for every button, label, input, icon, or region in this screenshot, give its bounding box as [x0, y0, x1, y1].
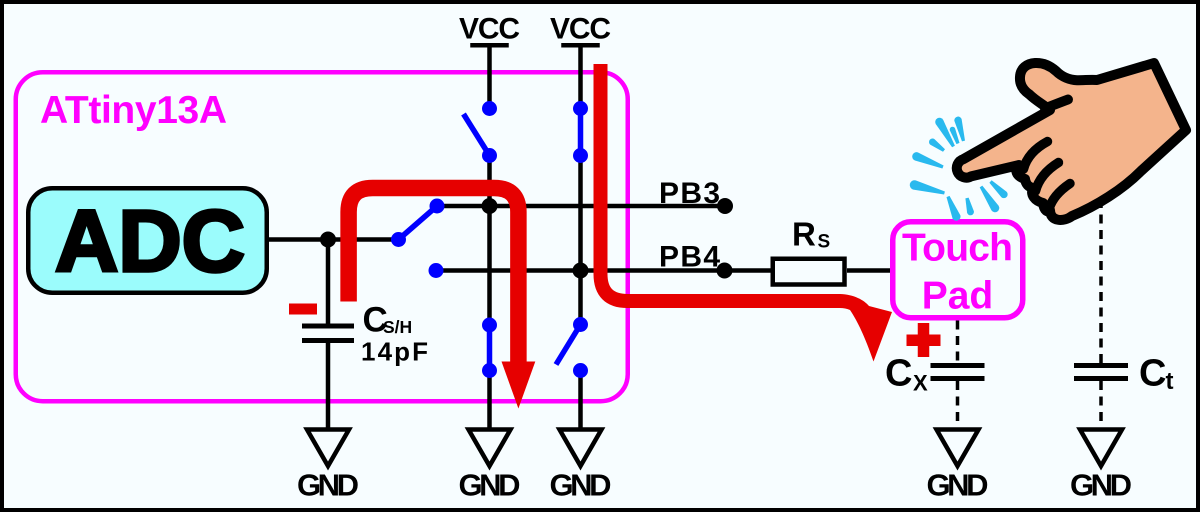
ground GND4	[937, 430, 979, 467]
ground GND5	[1080, 430, 1122, 467]
svg-text:Touch: Touch	[902, 227, 1013, 270]
capacitor Ct	[1074, 366, 1128, 379]
dashed wire Ct to GND	[1099, 381, 1103, 430]
wire VCC1 lower to GND	[487, 371, 492, 430]
svg-text:GND: GND	[1070, 468, 1132, 503]
ATtiny13A box U1	[16, 72, 628, 401]
ground GND3	[560, 430, 602, 467]
hand knuckle line 3	[1049, 184, 1070, 210]
switch S3 lower contact	[573, 148, 588, 163]
Touch Pad box	[893, 222, 1023, 318]
svg-text:GND: GND	[297, 468, 359, 503]
red current path 1 (sample/hold charge)	[349, 188, 519, 363]
node PB4 pin	[717, 263, 733, 279]
wire PB3 net	[437, 204, 725, 209]
touch spark rays	[910, 117, 1008, 221]
switch S5 lever (VCC2 bottom, open)	[556, 325, 581, 365]
switch S1 throw contact PB4	[429, 263, 444, 278]
VCC bar 1	[470, 43, 509, 48]
switch S4 lower contact	[482, 363, 497, 378]
red arrowhead 1	[502, 362, 536, 409]
hand thumb web line	[1045, 100, 1068, 109]
wire VCC2 middle	[578, 156, 583, 325]
svg-text:14pF: 14pF	[361, 337, 428, 367]
svg-text:C: C	[885, 353, 912, 395]
minus polarity sign	[289, 304, 317, 315]
wire ADC output	[269, 237, 399, 242]
switch S4 upper contact	[482, 318, 497, 333]
switch S5 lower contact	[573, 363, 588, 378]
node junction PB3 / VCC1 branch	[482, 198, 498, 214]
svg-text:GND: GND	[927, 468, 989, 503]
svg-text:PB4: PB4	[659, 241, 720, 274]
svg-text:S: S	[818, 232, 831, 253]
red arrowhead 2	[840, 294, 892, 362]
dashed wire Cx to GND	[956, 381, 960, 430]
wire VCC1 middle	[487, 156, 492, 326]
svg-text:VCC: VCC	[550, 13, 611, 46]
svg-text:PB3: PB3	[659, 177, 720, 210]
svg-text:t: t	[1166, 368, 1174, 395]
resistor Rs	[773, 259, 845, 285]
node PB3 pin	[717, 198, 733, 214]
svg-text:R: R	[792, 216, 816, 253]
dashed wire Touch Pad to Cx	[956, 321, 960, 364]
switch S1 throw contact PB3	[430, 199, 445, 214]
switch S2 lever (VCC1 top, open)	[464, 114, 490, 156]
red current path 2 (charge to touch pad)	[601, 64, 841, 301]
hand pointing (fist, thumb, index finger silhouette)	[957, 63, 1186, 220]
plus polarity sign	[907, 323, 941, 357]
hand knuckle line 2	[1036, 163, 1059, 192]
wire VCC2 lower to GND	[578, 371, 583, 430]
svg-text:X: X	[913, 371, 928, 396]
svg-text:C: C	[1139, 353, 1166, 395]
svg-text:GND: GND	[459, 468, 521, 503]
ADC block	[28, 188, 267, 293]
node junction ADC output / C_S/H	[320, 232, 336, 248]
svg-text:Pad: Pad	[922, 275, 994, 318]
wire Rs to Touch Pad	[847, 268, 891, 273]
ground GND2	[469, 430, 511, 467]
wire VCC2 upper	[578, 45, 583, 108]
hand knuckle line 1	[1024, 142, 1048, 170]
capacitor Cx	[931, 366, 985, 379]
switch S5 upper contact	[573, 317, 588, 332]
svg-text:S/H: S/H	[383, 317, 412, 337]
switch S1 lever (ADC to PB3, closed)	[399, 206, 438, 240]
switch S4 lever (VCC1 bottom, closed)	[487, 325, 493, 371]
switch S2 lower contact	[482, 148, 497, 163]
wire C_S/H to GND	[326, 343, 331, 430]
switch S1 common contact	[391, 232, 406, 247]
capacitor C_S/H	[302, 326, 354, 341]
wire node to C_S/H	[326, 237, 331, 324]
switch S3 lever (VCC2 top, closed)	[578, 109, 584, 156]
ground GND1	[307, 430, 349, 467]
svg-text:ADC: ADC	[55, 193, 245, 290]
svg-text:GND: GND	[550, 468, 612, 503]
svg-text:VCC: VCC	[459, 13, 520, 46]
svg-text:ATtiny13A: ATtiny13A	[40, 89, 227, 132]
node junction PB4 / VCC2 branch	[573, 263, 589, 279]
dashed wire finger to Ct	[1099, 199, 1103, 363]
wire VCC1 upper	[487, 45, 492, 108]
wire PB4 net	[436, 268, 771, 273]
switch S3 upper contact	[573, 101, 588, 116]
VCC bar 2	[561, 43, 600, 48]
switch S2 upper contact	[482, 101, 497, 116]
